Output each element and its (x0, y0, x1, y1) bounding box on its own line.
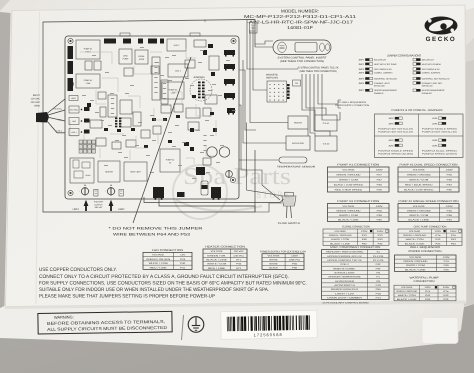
svg-text:172560568: 172560568 (254, 332, 283, 338)
svg-text:GREEN / GROUND: GREEN / GROUND (403, 260, 428, 263)
svg-text:CONNECT ONLY TO A CIRCUIT PROT: CONNECT ONLY TO A CIRCUIT PROTECTED BY A… (39, 274, 289, 280)
svg-text:(*) P5 AUXILIARY CONTROL BOARD: (*) P5 AUXILIARY CONTROL BOARD (323, 301, 370, 304)
svg-text:NEUTRAL: NEUTRAL (54, 108, 62, 111)
svg-text:WHITE / COM: WHITE / COM (409, 179, 428, 182)
svg-text:WHITE / COM: WHITE / COM (339, 214, 358, 217)
svg-text:STATUS LIGHT: STATUS LIGHT (334, 271, 355, 274)
svg-text:PUMP #2 CONNECTION: PUMP #2 CONNECTION (337, 200, 379, 203)
svg-text:LINE 2: LINE 2 (57, 130, 63, 133)
svg-text:12V: 12V (180, 254, 186, 257)
svg-text:60Hz: 60Hz (34, 105, 40, 108)
svg-text:DRAIN LIGHT / DIMMER: DRAIN LIGHT / DIMMER (327, 296, 362, 299)
svg-text:PUMP #2: PUMP #2 (169, 89, 178, 92)
svg-text:MAGNETIC: MAGNETIC (266, 74, 278, 77)
svg-text:P4F: P4F (376, 267, 382, 270)
svg-text:GREEN / GROUND: GREEN / GROUND (407, 209, 432, 212)
svg-text:VOLTAGE: VOLTAGE (152, 254, 165, 257)
svg-text:SPEAKER TEMPERATURE: SPEAKER TEMPERATURE (328, 276, 361, 279)
svg-text:JMP5: JMP5 (432, 117, 438, 120)
svg-text:WATERFALL PUMP: WATERFALL PUMP (410, 277, 439, 280)
svg-text:HEATER CONNECTION: HEATER CONNECTION (205, 246, 245, 249)
svg-text:40A CIRCUIT: 40A CIRCUIT (422, 59, 435, 62)
svg-text:HEATER MANAGEMENT: HEATER MANAGEMENT (374, 89, 398, 92)
svg-text:VOLTAGE: VOLTAGE (401, 286, 413, 289)
svg-text:240V: 240V (377, 230, 384, 233)
svg-text:SEE PUMP#2 & I/O: SEE PUMP#2 & I/O (374, 68, 392, 71)
svg-text:VOLTAGE: VOLTAGE (409, 256, 422, 259)
svg-text:WHITE / COM: WHITE / COM (339, 179, 358, 182)
svg-text:WATERFALL NOT INSTALLED: WATERFALL NOT INSTALLED (422, 77, 450, 80)
svg-text:LINE P51: LINE P51 (289, 259, 301, 262)
svg-text:VOLTAGE: VOLTAGE (413, 205, 426, 208)
svg-text:GREEN / GROUND: GREEN / GROUND (336, 174, 361, 177)
svg-text:HIGHLIGHT SWITCH BOARD: HIGHLIGHT SWITCH BOARD (326, 251, 364, 254)
svg-text:JMP6: JMP6 (358, 82, 364, 85)
svg-text:PL2-P5: PL2-P5 (373, 259, 384, 262)
svg-text:(240 VAC): (240 VAC) (234, 254, 244, 257)
svg-text:PUMP #2 SINGLE SPEED CONNECTIO: PUMP #2 SINGLE SPEED CONNECTION (399, 200, 459, 203)
svg-text:-A22-LS-HR-RTC-IR-SPW-NF-JJC-D: -A22-LS-HR-RTC-IR-SPW-NF-JJC-D17 (247, 20, 354, 25)
svg-text:JMP6: JMP6 (388, 122, 394, 125)
svg-text:BLACK / LINE: BLACK / LINE (338, 218, 359, 221)
svg-text:GREEN / GR.SEN: GREEN / GR.SEN (146, 258, 171, 261)
svg-text:PUMP #1: PUMP #1 (84, 79, 93, 82)
svg-text:PUMP#2 & I/O CONFIG. JUMPERS: PUMP#2 & I/O CONFIG. JUMPERS (392, 109, 443, 112)
svg-text:120V: 120V (424, 286, 431, 289)
svg-text:WHITE: WHITE (269, 259, 278, 262)
svg-text:CONFIG. JUMPERS: CONFIG. JUMPERS (374, 72, 393, 75)
svg-text:240 VAC: 240 VAC (234, 250, 244, 253)
svg-text:WHITE / COM: WHITE / COM (406, 238, 424, 241)
svg-text:VOLTAGE: VOLTAGE (268, 255, 281, 258)
svg-text:LINE 2: LINE 2 (71, 131, 77, 134)
svg-text:USE COPPER CONDUCTORS ONLY.: USE COPPER CONDUCTORS ONLY. (39, 267, 117, 273)
svg-text:P4F: P4F (376, 263, 382, 266)
svg-text:SWITCHES: SWITCHES (266, 77, 279, 80)
svg-text:JMP5: JMP5 (432, 139, 438, 142)
svg-text:BLACK / LOW SPEED: BLACK / LOW SPEED (334, 184, 364, 187)
svg-text:LINE1: LINE1 (73, 208, 80, 211)
svg-text:VOLTAGE: VOLTAGE (211, 250, 224, 253)
svg-text:SENSOR HIGHLIGHT: SENSOR HIGHLIGHT (331, 288, 359, 291)
svg-text:OUTPUT: OUTPUT (94, 203, 103, 206)
svg-text:RED / HIGH SPEED: RED / HIGH SPEED (335, 189, 363, 192)
svg-text:OZONE CONNECTION: OZONE CONNECTION (342, 226, 370, 229)
svg-text:PUMP#2 NOT INSTALLED: PUMP#2 NOT INSTALLED (378, 127, 414, 130)
svg-text:GECKO: GECKO (426, 36, 457, 43)
svg-text:AUX 2: AUX 2 (174, 44, 181, 47)
svg-text:TSC: TSC (295, 82, 300, 85)
svg-text:* DO NOT REMOVE THIS JUMPER: * DO NOT REMOVE THIS JUMPER (109, 227, 204, 231)
svg-text:JMP4: JMP4 (358, 72, 364, 75)
svg-text:120V: 120V (443, 256, 451, 259)
svg-text:WIRE BETWEEN P64 AND P53: WIRE BETWEEN P64 AND P53 (113, 232, 190, 236)
svg-text:O.E #1: O.E #1 (323, 122, 330, 125)
svg-text:VOLTAGE: VOLTAGE (342, 205, 355, 208)
svg-text:MISC. COMPONENT CONNECTION: MISC. COMPONENT CONNECTION (330, 246, 380, 249)
svg-text:COD 2: COD 2 (340, 263, 350, 266)
svg-text:PUMP: PUMP (123, 58, 129, 61)
svg-text:JMP1: JMP1 (358, 59, 364, 62)
svg-text:VOLTAGE: VOLTAGE (413, 169, 426, 172)
svg-text:WARNING:: WARNING: (54, 314, 74, 319)
svg-text:NEUTRAL: NEUTRAL (70, 109, 78, 112)
svg-text:BLACK / LINE: BLACK / LINE (408, 218, 429, 221)
svg-text:REMOTE CONNE.: REMOTE CONNE. (333, 267, 356, 270)
svg-text:GREEN / GROUND: GREEN / GROUND (407, 174, 432, 177)
svg-text:WHITE / COM: WHITE / COM (149, 262, 168, 265)
svg-text:CIRC: CIRC (123, 55, 128, 58)
svg-text:VOLTAGE: VOLTAGE (334, 230, 346, 233)
svg-text:LIGHT / 12V: LIGHT / 12V (335, 292, 355, 295)
svg-text:JMP6: JMP6 (432, 144, 438, 147)
svg-text:TO WALL SEQUENCER: TO WALL SEQUENCER (338, 101, 366, 104)
svg-text:(SEE TABLE FOR CONNECTION): (SEE TABLE FOR CONNECTION) (280, 60, 324, 63)
svg-text:BLACK / LINE: BLACK / LINE (206, 259, 227, 262)
svg-text:14081-01F: 14081-01F (287, 25, 314, 30)
svg-text:HEATER: HEATER (105, 170, 114, 173)
svg-text:WHITE / COM: WHITE / COM (207, 263, 226, 266)
svg-text:ENABLED: ENABLED (374, 92, 384, 95)
svg-text:JMP5: JMP5 (388, 117, 394, 120)
svg-text:PLEASE MAKE SURE THAT JUMPERS: PLEASE MAKE SURE THAT JUMPERS SETTING IS… (39, 294, 216, 300)
svg-text:MAIN: MAIN (86, 174, 91, 177)
svg-text:UPPER CONTROL TSC 2X: UPPER CONTROL TSC 2X (327, 259, 362, 262)
svg-text:240V: 240V (450, 230, 457, 233)
svg-text:RED / LINE: RED / LINE (150, 266, 168, 269)
svg-text:LINE1: LINE1 (71, 97, 76, 100)
svg-text:BLACK / LOW SPEED: BLACK / LOW SPEED (404, 189, 434, 192)
svg-text:O.E #2: O.E #2 (323, 142, 330, 145)
svg-text:GREEN / GROUND: GREEN / GROUND (396, 290, 417, 293)
svg-text:WHITE / COM: WHITE / COM (398, 294, 416, 297)
svg-text:WHITE / COM: WHITE / COM (409, 214, 428, 217)
svg-text:WHITE: WHITE (269, 263, 278, 266)
svg-text:JMP5: JMP5 (388, 139, 394, 142)
svg-text:WHITE / COM: WHITE / COM (406, 264, 425, 267)
svg-text:WHITE / COM: WHITE / COM (331, 238, 349, 241)
svg-text:GREEN / GROUND: GREEN / GROUND (336, 209, 361, 212)
svg-text:SUITABLE ONLY FOR INDOOR USE O: SUITABLE ONLY FOR INDOOR USE OR WHEN INS… (39, 287, 269, 293)
svg-text:BLACK / LINE: BLACK / LINE (330, 242, 351, 245)
svg-text:DYNAMIC LIGHT NOT: DYNAMIC LIGHT NOT (422, 82, 443, 85)
svg-text:PUMP#2 NOT INSTALLED: PUMP#2 NOT INSTALLED (422, 131, 458, 134)
svg-text:PUMP #2 DUAL SPEED CONNECTION: PUMP #2 DUAL SPEED CONNECTION (400, 164, 458, 167)
svg-text:BLACK / LINE: BLACK / LINE (405, 268, 426, 271)
svg-text:240V: 240V (446, 205, 454, 208)
svg-text:240V: 240V (443, 286, 450, 289)
svg-text:SEE PUMP#2 & I/O: SEE PUMP#2 & I/O (422, 68, 440, 71)
svg-text:JMP7: JMP7 (358, 89, 364, 92)
svg-text:PUMP#2 SINGLE SPEED: PUMP#2 SINGLE SPEED (422, 127, 458, 130)
svg-text:OZON-: OZON- (138, 55, 145, 58)
svg-text:HEAT WITH CIRC PUMP: HEAT WITH CIRC PUMP (374, 63, 397, 66)
svg-text:CONNECTION: CONNECTION (414, 280, 435, 283)
svg-text:240V: 240V (376, 205, 384, 208)
svg-text:VOLTAGE: VOLTAGE (409, 230, 421, 233)
svg-text:DYNAMIC LIGHT: DYNAMIC LIGHT (374, 82, 390, 85)
svg-text:VOLTAGE: VOLTAGE (342, 169, 355, 172)
svg-text:HEAT WITH PUMP#1: HEAT WITH PUMP#1 (422, 63, 442, 66)
svg-text:JUMPER CONFIGURATIONS: JUMPER CONFIGURATIONS (387, 54, 421, 58)
svg-text:GREEN / GROUND: GREEN / GROUND (329, 234, 353, 237)
svg-text:FOR SUPPLY CONNECTIONS, USE CO: FOR SUPPLY CONNECTIONS, USE CONDUCTORS S… (39, 281, 307, 287)
svg-text:120V: 120V (435, 230, 442, 233)
svg-text:JMP2: JMP2 (358, 63, 364, 66)
svg-text:PUMP#2 NOT INSTALLED: PUMP#2 NOT INSTALLED (378, 131, 414, 134)
svg-text:RED / BLUE SPEED: RED / BLUE SPEED (405, 184, 433, 187)
svg-text:POWER CONNECTION: POWER CONNECTION (409, 250, 442, 253)
svg-text:JMP6: JMP6 (432, 122, 438, 125)
svg-text:(SEE TABLE FOR CONNECTION): (SEE TABLE FOR CONNECTION) (300, 70, 337, 73)
svg-text:JMP3: JMP3 (358, 68, 364, 71)
svg-text:DISABLED: DISABLED (422, 92, 432, 95)
svg-text:PUMP #1: PUMP #1 (84, 48, 93, 51)
svg-text:60A CIRCUIT: 60A CIRCUIT (374, 59, 387, 62)
svg-text:MODEL NUMBER:: MODEL NUMBER: (281, 9, 319, 14)
svg-text:BLACK / LINE: BLACK / LINE (405, 242, 426, 245)
svg-text:AV RECEIVER: AV RECEIVER (335, 280, 354, 283)
svg-text:GREEN / GR.: GREEN / GR. (207, 254, 226, 257)
svg-text:INSTALLED: INSTALLED (422, 85, 433, 88)
svg-text:LOW: LOW (86, 82, 91, 85)
svg-text:UPPER CONTROL ECO 2X: UPPER CONTROL ECO 2X (327, 255, 362, 258)
svg-text:PUMP#2 SPEED 2(LOW): PUMP#2 SPEED 2(LOW) (378, 153, 414, 156)
svg-text:AUX 1: AUX 1 (175, 69, 182, 72)
svg-text:BLACK / LINE: BLACK / LINE (397, 298, 418, 301)
svg-text:POWER SUPPLY CONNECTION: POWER SUPPLY CONNECTION (335, 104, 369, 107)
svg-text:INSTALLED: INSTALLED (374, 85, 385, 88)
svg-text:DAT.E/LODE: DAT.E/LODE (292, 142, 305, 145)
svg-text:PUMP#2 SINGLE SPEED: PUMP#2 SINGLE SPEED (378, 149, 414, 152)
svg-text:GREEN / GROUND: GREEN / GROUND (403, 234, 427, 237)
svg-text:CONFIG. JUMPERS: CONFIG. JUMPERS (422, 72, 441, 75)
svg-text:BLACK: BLACK (269, 266, 278, 269)
svg-text:240V: 240V (446, 169, 454, 172)
svg-text:AV/TM SWITCH: AV/TM SWITCH (334, 284, 355, 287)
svg-text:HEATER MANAGEMENT: HEATER MANAGEMENT (422, 89, 446, 92)
svg-text:POWER SUPPLY FOR (EXTEND) 120V: POWER SUPPLY FOR (EXTEND) 120V (260, 250, 306, 253)
svg-text:PUMP#2 SPEED 1(HIGH): PUMP#2 SPEED 1(HIGH) (422, 153, 458, 156)
svg-text:WATERFALL INSTALLED: WATERFALL INSTALLED (374, 77, 397, 80)
svg-text:RED / LINE: RED / LINE (208, 267, 226, 270)
svg-text:240 VAC: 240 VAC (95, 206, 103, 209)
svg-text:FLOW SWITCH: FLOW SWITCH (278, 222, 300, 225)
svg-text:120V: 120V (291, 255, 299, 258)
svg-text:FAN CONNECTION: FAN CONNECTION (152, 249, 183, 252)
svg-text:MC-MP-P122-P212-P312-D1-CP1-A1: MC-MP-P122-P212-P312-D1-CP1-A11 (244, 14, 357, 19)
svg-text:TEMPERATURE SENSOR: TEMPERATURE SENSOR (277, 166, 315, 169)
svg-text:CIRC PUMP CONNECTION: CIRC PUMP CONNECTION (414, 226, 447, 229)
svg-text:PL2-PB: PL2-PB (373, 255, 384, 258)
svg-text:JUMPERS: JUMPERS (193, 76, 205, 79)
svg-text:120V: 120V (361, 230, 368, 233)
svg-text:JMP6: JMP6 (388, 144, 394, 147)
svg-text:LINE2: LINE2 (118, 208, 125, 211)
svg-text:PUMP #1 CONNECTION: PUMP #1 CONNECTION (337, 164, 379, 167)
svg-text:*HEATER*: *HEATER* (94, 201, 104, 204)
svg-text:PUMP#2 DUAL SPEED: PUMP#2 DUAL SPEED (422, 149, 458, 152)
svg-text:HIGH LIMIT: HIGH LIMIT (130, 170, 141, 173)
svg-text:240V: 240V (376, 169, 384, 172)
svg-text:PUMP #2: PUMP #2 (166, 159, 175, 162)
svg-text:WALL SEQUENCER: WALL SEQUENCER (410, 246, 440, 249)
svg-text:PAN/CH: PAN/CH (294, 121, 302, 124)
svg-text:ATOR: ATOR (139, 58, 145, 61)
svg-text:JMP5: JMP5 (358, 77, 364, 80)
